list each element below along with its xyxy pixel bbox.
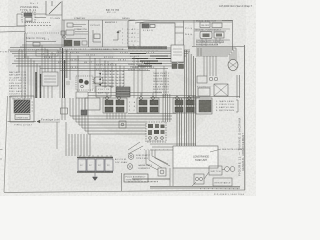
svg-text:VOLT 24: VOLT 24 bbox=[98, 89, 110, 91]
wires below junction box bbox=[150, 144, 196, 150]
wing tank rectangle bbox=[173, 146, 218, 168]
battery block bbox=[77, 158, 113, 173]
svg-text:TYPE 2 MK1: TYPE 2 MK1 bbox=[136, 158, 149, 160]
svg-text:TO GEN: TO GEN bbox=[50, 18, 60, 20]
legend text right bbox=[216, 100, 238, 112]
fuselage joint arrow bbox=[8, 119, 61, 150]
svg-text:2. FIELD COIL: 2. FIELD COIL bbox=[216, 104, 235, 106]
bottom right component cluster bbox=[192, 166, 235, 186]
svg-text:P8 R3: P8 R3 bbox=[70, 67, 79, 69]
svg-text:N3 P17: N3 P17 bbox=[96, 65, 106, 67]
connection wires bottom mid bbox=[128, 142, 173, 186]
svg-text:EXTERNAL SUPPLY SOCKET 12V: EXTERNAL SUPPLY SOCKET 12V bbox=[196, 40, 225, 43]
battery cell ticks bbox=[80, 155, 111, 157]
vertical drop comb mid bbox=[67, 51, 142, 98]
filter oval bbox=[228, 60, 238, 71]
svg-text:FUSE PANEL No.4 10A: FUSE PANEL No.4 10A bbox=[102, 79, 125, 82]
terminal labels left of control box bbox=[128, 28, 140, 47]
svg-text:VOLTAGE REG.: VOLTAGE REG. bbox=[20, 6, 39, 9]
svg-text:N.2: N.2 bbox=[44, 39, 49, 41]
svg-text:ID LAMP U 24: ID LAMP U 24 bbox=[9, 76, 26, 79]
svg-text:A.P.4343 Vol.1 Sec.2 Chap.7: A.P.4343 Vol.1 Sec.2 Chap.7 bbox=[219, 4, 253, 8]
svg-text:H4 J7: H4 J7 bbox=[84, 62, 93, 64]
svg-text:FUSE PANEL No.3 10A: FUSE PANEL No.3 10A bbox=[102, 76, 125, 79]
wire from battery down bbox=[121, 173, 123, 191]
control box (dashed) bbox=[140, 23, 175, 48]
svg-text:COCKPIT L 30: COCKPIT L 30 bbox=[9, 94, 26, 96]
svg-text:CONTENTS 2: CONTENTS 2 bbox=[138, 168, 151, 170]
relay box on bus bbox=[36, 50, 58, 56]
svg-text:AMMETER 2: AMMETER 2 bbox=[105, 21, 118, 24]
svg-text:FUSE PANEL No.1 5A: FUSE PANEL No.1 5A bbox=[102, 70, 125, 73]
meter box mid bbox=[96, 86, 111, 97]
svg-text:NEG: NEG bbox=[185, 34, 192, 36]
left margin registration marks bbox=[0, 150, 3, 160]
svg-text:RELAY FEED: RELAY FEED bbox=[153, 86, 170, 89]
wire label ladder left bbox=[9, 71, 26, 98]
svg-text:—F1—: —F1— bbox=[128, 37, 140, 39]
drop pair left of bundle bbox=[61, 98, 68, 120]
svg-text:1. MAIN FEED: 1. MAIN FEED bbox=[216, 100, 234, 103]
svg-text:FIELD: FIELD bbox=[143, 30, 153, 32]
svg-text:GAUGE UNIT S: GAUGE UNIT S bbox=[138, 164, 153, 167]
voltage regulator box (dashed) bbox=[22, 12, 35, 22]
feeder wires upper right bbox=[196, 48, 236, 76]
svg-text:RESISTANCE: RESISTANCE bbox=[215, 182, 232, 185]
terminal block group 2 bbox=[137, 97, 159, 113]
svg-text:C4 D12: C4 D12 bbox=[86, 55, 96, 57]
svg-text:CONTENTS G: CONTENTS G bbox=[153, 84, 169, 86]
svg-text:MK.III: MK.III bbox=[107, 12, 117, 14]
fuse text cluster mid right bbox=[102, 70, 125, 88]
svg-text:NAV LAMP S 23: NAV LAMP S 23 bbox=[9, 74, 26, 77]
cable bundle dark pair bbox=[36, 72, 41, 98]
ammeter arrow section bbox=[105, 21, 121, 40]
starter motor sub-box row bbox=[19, 33, 64, 58]
dark bus label clots bbox=[130, 54, 172, 67]
svg-text:J6 K22: J6 K22 bbox=[130, 56, 140, 58]
svg-text:GUN SIGHT 26: GUN SIGHT 26 bbox=[9, 83, 26, 85]
svg-text:PITOT HD 25: PITOT HD 25 bbox=[9, 80, 26, 82]
svg-text:POS: POS bbox=[185, 28, 193, 30]
left frame line bbox=[4, 96, 8, 192]
bottom frame line bbox=[4, 190, 245, 193]
svg-text:SWITCH: SWITCH bbox=[211, 171, 222, 173]
extra drop wires left-mid bbox=[42, 45, 66, 98]
panel edge label column bbox=[122, 29, 128, 45]
svg-text:G2 H15: G2 H15 bbox=[70, 60, 80, 62]
svg-text:P.P.4343/1 1500 9/44: P.P.4343/1 1500 9/44 bbox=[214, 194, 245, 196]
svg-text:CUTOUT: CUTOUT bbox=[90, 25, 101, 27]
bus clutter right bbox=[128, 63, 154, 71]
svg-text:TANK UNIT: TANK UNIT bbox=[195, 158, 207, 162]
lamp component mid-left bbox=[66, 76, 106, 90]
svg-text:TYPE D 24 VOLT: TYPE D 24 VOLT bbox=[14, 125, 33, 127]
svg-text:B7 C3: B7 C3 bbox=[58, 62, 67, 64]
scan grain overlay bbox=[0, 0, 256, 196]
svg-text:PRESS UNIT: PRESS UNIT bbox=[153, 92, 170, 94]
terminal block group 1 bbox=[103, 97, 127, 113]
svg-text:T2 U9: T2 U9 bbox=[56, 52, 65, 54]
dark terminal row below box bbox=[140, 149, 168, 152]
svg-text:E7 F31: E7 F31 bbox=[104, 57, 114, 59]
drop ticks under group 1 bbox=[107, 113, 125, 119]
nested corner wires mid bbox=[70, 98, 172, 134]
svg-text:Z4 A9: Z4 A9 bbox=[44, 56, 53, 59]
svg-text:TANK PUMP 2: TANK PUMP 2 bbox=[153, 75, 170, 78]
svg-text:K9 L5: K9 L5 bbox=[108, 65, 117, 67]
labels above band bbox=[74, 9, 131, 20]
svg-text:24V 40AH: 24V 40AH bbox=[115, 161, 127, 164]
main trunk verticals bbox=[177, 50, 196, 150]
scan shading patches bbox=[5, 15, 240, 188]
junction dots on bus bbox=[34, 51, 121, 67]
accumulator unit left bbox=[10, 96, 34, 127]
pump motor bottom left bbox=[128, 154, 150, 160]
svg-text:JUNCTION BOX 2C: JUNCTION BOX 2C bbox=[147, 141, 165, 143]
equipment row band bbox=[62, 20, 135, 47]
svg-text:TANK PUMP 1: TANK PUMP 1 bbox=[153, 72, 170, 75]
svg-text:FUEL GAGE 29: FUEL GAGE 29 bbox=[9, 90, 26, 93]
switch panel cluster top right bbox=[194, 20, 233, 51]
mid trunk vertical group bbox=[163, 94, 170, 122]
distribution cells under tall box bbox=[172, 58, 184, 69]
svg-text:ACCUM.: ACCUM. bbox=[115, 158, 127, 161]
svg-text:FIGURE 11 — WIRING DIAGRAM: FIGURE 11 — WIRING DIAGRAM bbox=[238, 118, 242, 177]
inline fuse on feed wire bbox=[119, 121, 126, 128]
svg-text:DYNAMO PNL: DYNAMO PNL bbox=[74, 28, 88, 31]
svg-text:4. SWITCH BUS: 4. SWITCH BUS bbox=[216, 110, 235, 112]
svg-text:PANEL FEED 3 No.5: PANEL FEED 3 No.5 bbox=[132, 66, 154, 69]
bus wires bbox=[8, 45, 190, 71]
svg-text:— ENGINE BULKHEAD CONNECTOR: — ENGINE BULKHEAD CONNECTOR — bbox=[88, 48, 127, 51]
fuse ladder arrows bbox=[99, 73, 101, 86]
svg-text:V5 W1: V5 W1 bbox=[120, 52, 129, 54]
svg-text:PANEL FEED 2 No.4: PANEL FEED 2 No.4 bbox=[128, 63, 150, 66]
junction box mid lower bbox=[146, 122, 166, 143]
rotated figure title bbox=[238, 118, 245, 177]
tank switch component bbox=[158, 168, 166, 176]
svg-text:SPARE CIRCUIT 6: SPARE CIRCUIT 6 bbox=[128, 68, 148, 71]
svg-text:3. EARTH LINE: 3. EARTH LINE bbox=[216, 106, 235, 109]
svg-text:LONG RANGE: LONG RANGE bbox=[193, 155, 209, 159]
inter-group wire labels bbox=[129, 101, 136, 112]
distribution sub-box left bbox=[42, 72, 58, 86]
svg-text:ON-OFF: ON-OFF bbox=[201, 25, 210, 27]
svg-text:NAV LAMP P 22: NAV LAMP P 22 bbox=[9, 71, 26, 74]
battery label bbox=[115, 158, 127, 164]
svg-text:FUSE 40A FUSE 60A: FUSE 40A FUSE 60A bbox=[196, 43, 219, 46]
terminal strip row mid bbox=[76, 92, 196, 98]
svg-text:—D—: —D— bbox=[128, 45, 140, 47]
svg-text:PORT: PORT bbox=[0, 52, 10, 54]
relay component row right bbox=[197, 76, 218, 89]
generator box with diagonal bbox=[46, 1, 62, 15]
svg-text:CAMERA G 27: CAMERA G 27 bbox=[9, 85, 26, 88]
svg-text:X3 Y8: X3 Y8 bbox=[146, 52, 155, 54]
plug box bottom left bbox=[124, 174, 148, 182]
cross line above junction box bbox=[128, 113, 176, 115]
svg-text:No.1: No.1 bbox=[30, 3, 39, 5]
junction wires right of control box bbox=[175, 21, 184, 51]
svg-text:FUSE PANEL No.2 5A: FUSE PANEL No.2 5A bbox=[102, 73, 125, 76]
battery earth symbol bbox=[93, 173, 98, 181]
relay box right bbox=[192, 75, 240, 98]
svg-text:—A1—: —A1— bbox=[128, 28, 140, 31]
gauge unit bottom left bbox=[127, 164, 152, 170]
svg-text:WARNING LP: WARNING LP bbox=[153, 88, 170, 91]
vertical drop comb left bbox=[19, 50, 40, 98]
page background bbox=[0, 0, 256, 196]
svg-text:CHARGING: CHARGING bbox=[16, 117, 28, 120]
svg-text:PANEL: PANEL bbox=[122, 17, 131, 20]
battery feed verticals bbox=[66, 122, 90, 156]
svg-text:Starter Circuit: Starter Circuit bbox=[26, 37, 45, 40]
right border join wire bbox=[192, 46, 244, 48]
svg-text:—F2—: —F2— bbox=[128, 41, 140, 43]
upper left contact box bbox=[81, 98, 100, 115]
dynamo panel contents bbox=[61, 23, 88, 46]
svg-text:A11 B2: A11 B2 bbox=[70, 51, 80, 54]
svg-text:GROUND - FLIGHT SELECT: GROUND - FLIGHT SELECT bbox=[195, 30, 222, 32]
svg-text:STARTER: STARTER bbox=[74, 17, 85, 20]
heavy text band below control box bbox=[128, 46, 167, 53]
svg-text:RADIO SET 28: RADIO SET 28 bbox=[9, 87, 26, 90]
svg-text:—A2—: —A2— bbox=[128, 32, 140, 35]
right frame line bbox=[244, 45, 246, 190]
starter relay box right bbox=[196, 98, 212, 114]
svg-text:Fuselage joint: Fuselage joint bbox=[41, 119, 60, 122]
title text block top left bbox=[20, 3, 39, 12]
svg-text:▪ ▪ ▪ ▪ ▪ ▪ ▪ ▪: ▪ ▪ ▪ ▪ ▪ ▪ ▪ ▪ bbox=[140, 149, 168, 152]
svg-text:PLUG ASSEMBLY: PLUG ASSEMBLY bbox=[126, 176, 147, 179]
cutout relay section bbox=[90, 25, 101, 42]
distribution box tall bbox=[171, 45, 184, 62]
heavy bottom rule bbox=[150, 187, 240, 189]
wire code ticks on bus bbox=[44, 51, 155, 71]
terminal block group 3 bbox=[173, 97, 195, 113]
svg-text:AMP 300: AMP 300 bbox=[98, 92, 110, 95]
svg-text:FUEL PUMP P: FUEL PUMP P bbox=[136, 155, 151, 157]
svg-text:IMMERSION H: IMMERSION H bbox=[153, 81, 170, 83]
svg-text:GAUGE UNIT: GAUGE UNIT bbox=[153, 77, 170, 80]
dashed row under plug box bbox=[128, 181, 158, 183]
main feed wires to right bbox=[128, 20, 232, 23]
wire from regulator to generator bbox=[0, 14, 62, 47]
pump label column mid bbox=[153, 72, 170, 94]
svg-text:D8 E2: D8 E2 bbox=[118, 60, 127, 62]
dark fuse patch bbox=[116, 87, 130, 97]
svg-text:FUSE PANEL No.5 15A: FUSE PANEL No.5 15A bbox=[102, 82, 125, 85]
pump column drops bbox=[150, 66, 200, 98]
dark cable pair mid bbox=[63, 48, 65, 98]
